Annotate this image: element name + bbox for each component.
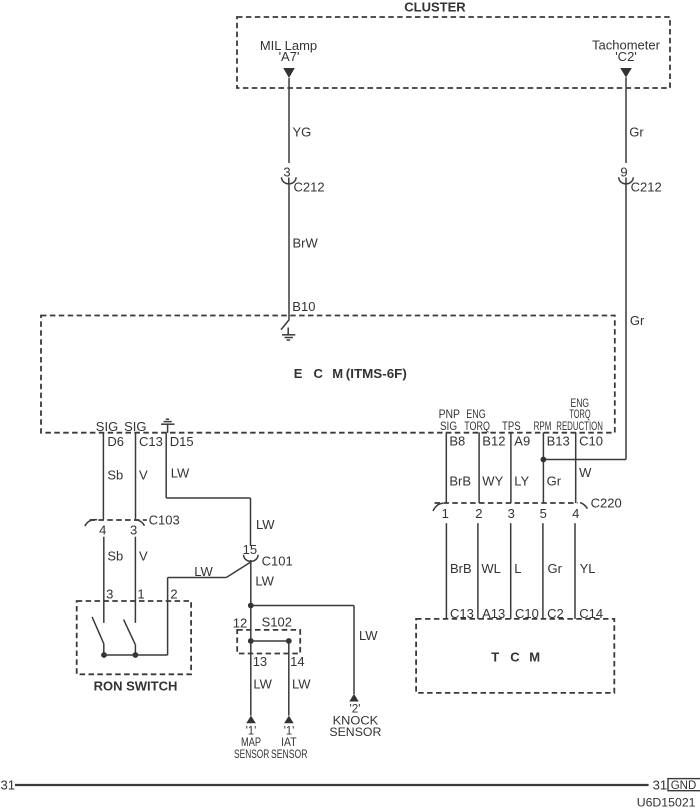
svg-text:LW: LW	[256, 517, 275, 532]
svg-text:LW: LW	[359, 628, 378, 643]
svg-text:A9: A9	[514, 434, 530, 449]
svg-text:YG: YG	[293, 125, 312, 140]
svg-text:WY: WY	[482, 474, 503, 489]
svg-text:SENSOR: SENSOR	[234, 749, 269, 761]
ground bus line 31	[1, 778, 668, 793]
svg-text:'2': '2'	[350, 704, 361, 716]
svg-text:RON SWITCH: RON SWITCH	[94, 679, 178, 694]
svg-text:B10: B10	[292, 299, 315, 314]
svg-text:1: 1	[442, 506, 449, 521]
svg-text:Sb: Sb	[107, 549, 123, 564]
svg-text:D6: D6	[107, 434, 124, 449]
svg-text:4: 4	[99, 523, 106, 538]
svg-text:B12: B12	[482, 434, 505, 449]
svg-text:1: 1	[137, 587, 144, 602]
svg-text:9: 9	[620, 165, 627, 180]
wire WY from B12 to C220	[479, 432, 503, 503]
RON switch box	[77, 601, 191, 674]
wire LW from S102-14 to IAT sensor	[289, 641, 311, 716]
wire YG from MIL lamp to C212	[289, 78, 311, 163]
svg-text:C212: C212	[631, 180, 662, 195]
svg-text:U6D15021: U6D15021	[637, 796, 696, 810]
svg-text:C13: C13	[139, 434, 163, 449]
svg-text:B8: B8	[449, 434, 465, 449]
svg-text:WL: WL	[481, 561, 501, 576]
wire Sb from D6 to C103	[103, 433, 123, 520]
svg-text:31: 31	[653, 778, 667, 793]
svg-text:'C2': 'C2'	[615, 49, 637, 64]
svg-text:A13: A13	[482, 606, 505, 621]
wire LW branch to knock sensor	[251, 606, 378, 695]
svg-text:D15: D15	[170, 434, 194, 449]
svg-text:'A7': 'A7'	[279, 49, 300, 64]
svg-text:14: 14	[290, 654, 304, 669]
MIL lamp A7	[260, 38, 317, 78]
ECM internal label PNP SIG	[439, 409, 461, 433]
svg-text:YL: YL	[580, 561, 596, 576]
svg-text:3: 3	[130, 523, 137, 538]
ground inside ECM above D15	[161, 419, 175, 433]
svg-text:Sb: Sb	[107, 468, 123, 483]
wire LW from RON switch pin 2 to C101	[168, 562, 251, 655]
tachometer C2	[592, 37, 661, 77]
cluster box	[237, 17, 670, 88]
junction node B13/Gr	[541, 457, 547, 463]
wire YL from C220-4 to TCM C14	[575, 523, 603, 621]
svg-text:CLUSTER: CLUSTER	[404, 0, 466, 15]
svg-text:12: 12	[233, 616, 247, 631]
MAP sensor terminal	[234, 716, 269, 761]
svg-text:'1': '1'	[246, 726, 257, 738]
svg-text:SENSOR: SENSOR	[329, 727, 381, 739]
svg-text:IAT: IAT	[281, 737, 297, 749]
svg-text:3: 3	[508, 506, 515, 521]
svg-text:LW: LW	[292, 677, 311, 692]
junction node on LW wire	[248, 603, 254, 609]
svg-text:V: V	[139, 468, 148, 483]
svg-text:REDUCTION: REDUCTION	[556, 421, 603, 433]
wire Gr from C220-5 to TCM C2	[543, 523, 564, 621]
svg-text:BrW: BrW	[293, 236, 319, 251]
svg-text:B13: B13	[547, 434, 570, 449]
svg-text:SENSOR: SENSOR	[271, 749, 308, 761]
svg-text:13: 13	[253, 654, 267, 669]
ECM internal label ENG TORQ	[464, 409, 490, 433]
svg-text:LW: LW	[194, 564, 213, 579]
wire V from C13 to C103	[136, 433, 149, 520]
wire Gr from tachometer to C212	[626, 78, 644, 164]
svg-text:S102: S102	[262, 615, 292, 630]
svg-text:Gr: Gr	[629, 125, 644, 140]
svg-text:3: 3	[106, 587, 113, 602]
svg-text:15: 15	[243, 542, 257, 557]
ECM box	[41, 316, 615, 433]
svg-text:SIG: SIG	[440, 421, 457, 433]
svg-text:RPM: RPM	[534, 421, 552, 433]
wire WL from C220-2 to TCM A13	[478, 523, 505, 621]
connector C212 pin 9	[619, 165, 662, 195]
wire BrB from C220-1 to TCM C13	[446, 523, 473, 621]
ground at B10 inside ECM	[281, 320, 295, 340]
wire Sb from C103 to RON switch	[104, 537, 124, 623]
wire L from C220-3 to TCM C10	[511, 523, 539, 621]
wire W from C10 to C220	[576, 432, 592, 503]
svg-text:LW: LW	[171, 466, 190, 481]
svg-text:W: W	[579, 465, 592, 480]
svg-text:C103: C103	[149, 513, 180, 528]
svg-text:TPS: TPS	[502, 421, 521, 433]
wire Gr from C212 to B13 junction	[543, 184, 645, 460]
svg-text:SIG: SIG	[124, 419, 146, 434]
svg-text:TCM: TCM	[491, 649, 540, 664]
ECM internal label ENG TORQ REDUCTION	[556, 398, 603, 433]
svg-text:31: 31	[1, 778, 15, 793]
svg-text:Gr: Gr	[548, 561, 563, 576]
wire BrW from C212 to ECM B10	[289, 184, 319, 321]
TCM box	[416, 619, 614, 693]
svg-text:C212: C212	[294, 180, 325, 195]
svg-text:ENG: ENG	[466, 409, 485, 421]
svg-text:Gr: Gr	[630, 313, 645, 328]
knock sensor terminal	[329, 694, 381, 739]
svg-text:'1': '1'	[284, 726, 295, 738]
svg-text:4: 4	[572, 506, 579, 521]
wire V from C103 to RON switch	[135, 537, 148, 623]
connector C220	[433, 496, 622, 522]
svg-text:LW: LW	[253, 677, 272, 692]
wire Gr from B13 to C220	[543, 432, 561, 503]
svg-text:5: 5	[540, 506, 547, 521]
wire LW from D15 to C101	[166, 433, 275, 546]
splice S102	[233, 615, 305, 670]
svg-text:LY: LY	[514, 474, 529, 489]
svg-text:C10: C10	[579, 434, 603, 449]
svg-text:BrB: BrB	[450, 561, 472, 576]
svg-text:SIG: SIG	[96, 419, 118, 434]
RON switch common bar	[104, 654, 168, 656]
svg-text:PNP: PNP	[439, 409, 461, 421]
RON switch blade 1	[92, 617, 107, 658]
IAT sensor terminal	[271, 716, 308, 761]
RON switch blade 2	[124, 620, 139, 658]
svg-text:MAP: MAP	[241, 737, 261, 749]
svg-text:Gr: Gr	[547, 474, 562, 489]
svg-text:TORQ: TORQ	[569, 409, 590, 421]
svg-text:C101: C101	[262, 554, 293, 569]
svg-text:GND: GND	[671, 780, 697, 792]
svg-text:LW: LW	[255, 574, 274, 589]
wire BrB from B8 to C220	[446, 432, 471, 503]
connector C101 pin 15	[243, 542, 293, 569]
svg-text:V: V	[139, 549, 148, 564]
svg-text:KNOCK: KNOCK	[333, 715, 379, 727]
GND box	[668, 779, 700, 792]
svg-text:C220: C220	[591, 496, 622, 511]
wire LW from S102-13 to MAP sensor	[251, 641, 273, 716]
svg-text:L: L	[514, 561, 521, 576]
wire LY from A9 to C220	[511, 432, 530, 503]
svg-text:2: 2	[475, 506, 482, 521]
wire LW from C101 to S102	[251, 560, 275, 641]
svg-text:TORQ: TORQ	[464, 421, 490, 433]
svg-text:3: 3	[283, 165, 290, 180]
svg-text:BrB: BrB	[449, 474, 471, 489]
svg-text:2: 2	[170, 587, 177, 602]
connector C212 pin 3	[282, 165, 325, 195]
connector C103	[85, 513, 180, 538]
